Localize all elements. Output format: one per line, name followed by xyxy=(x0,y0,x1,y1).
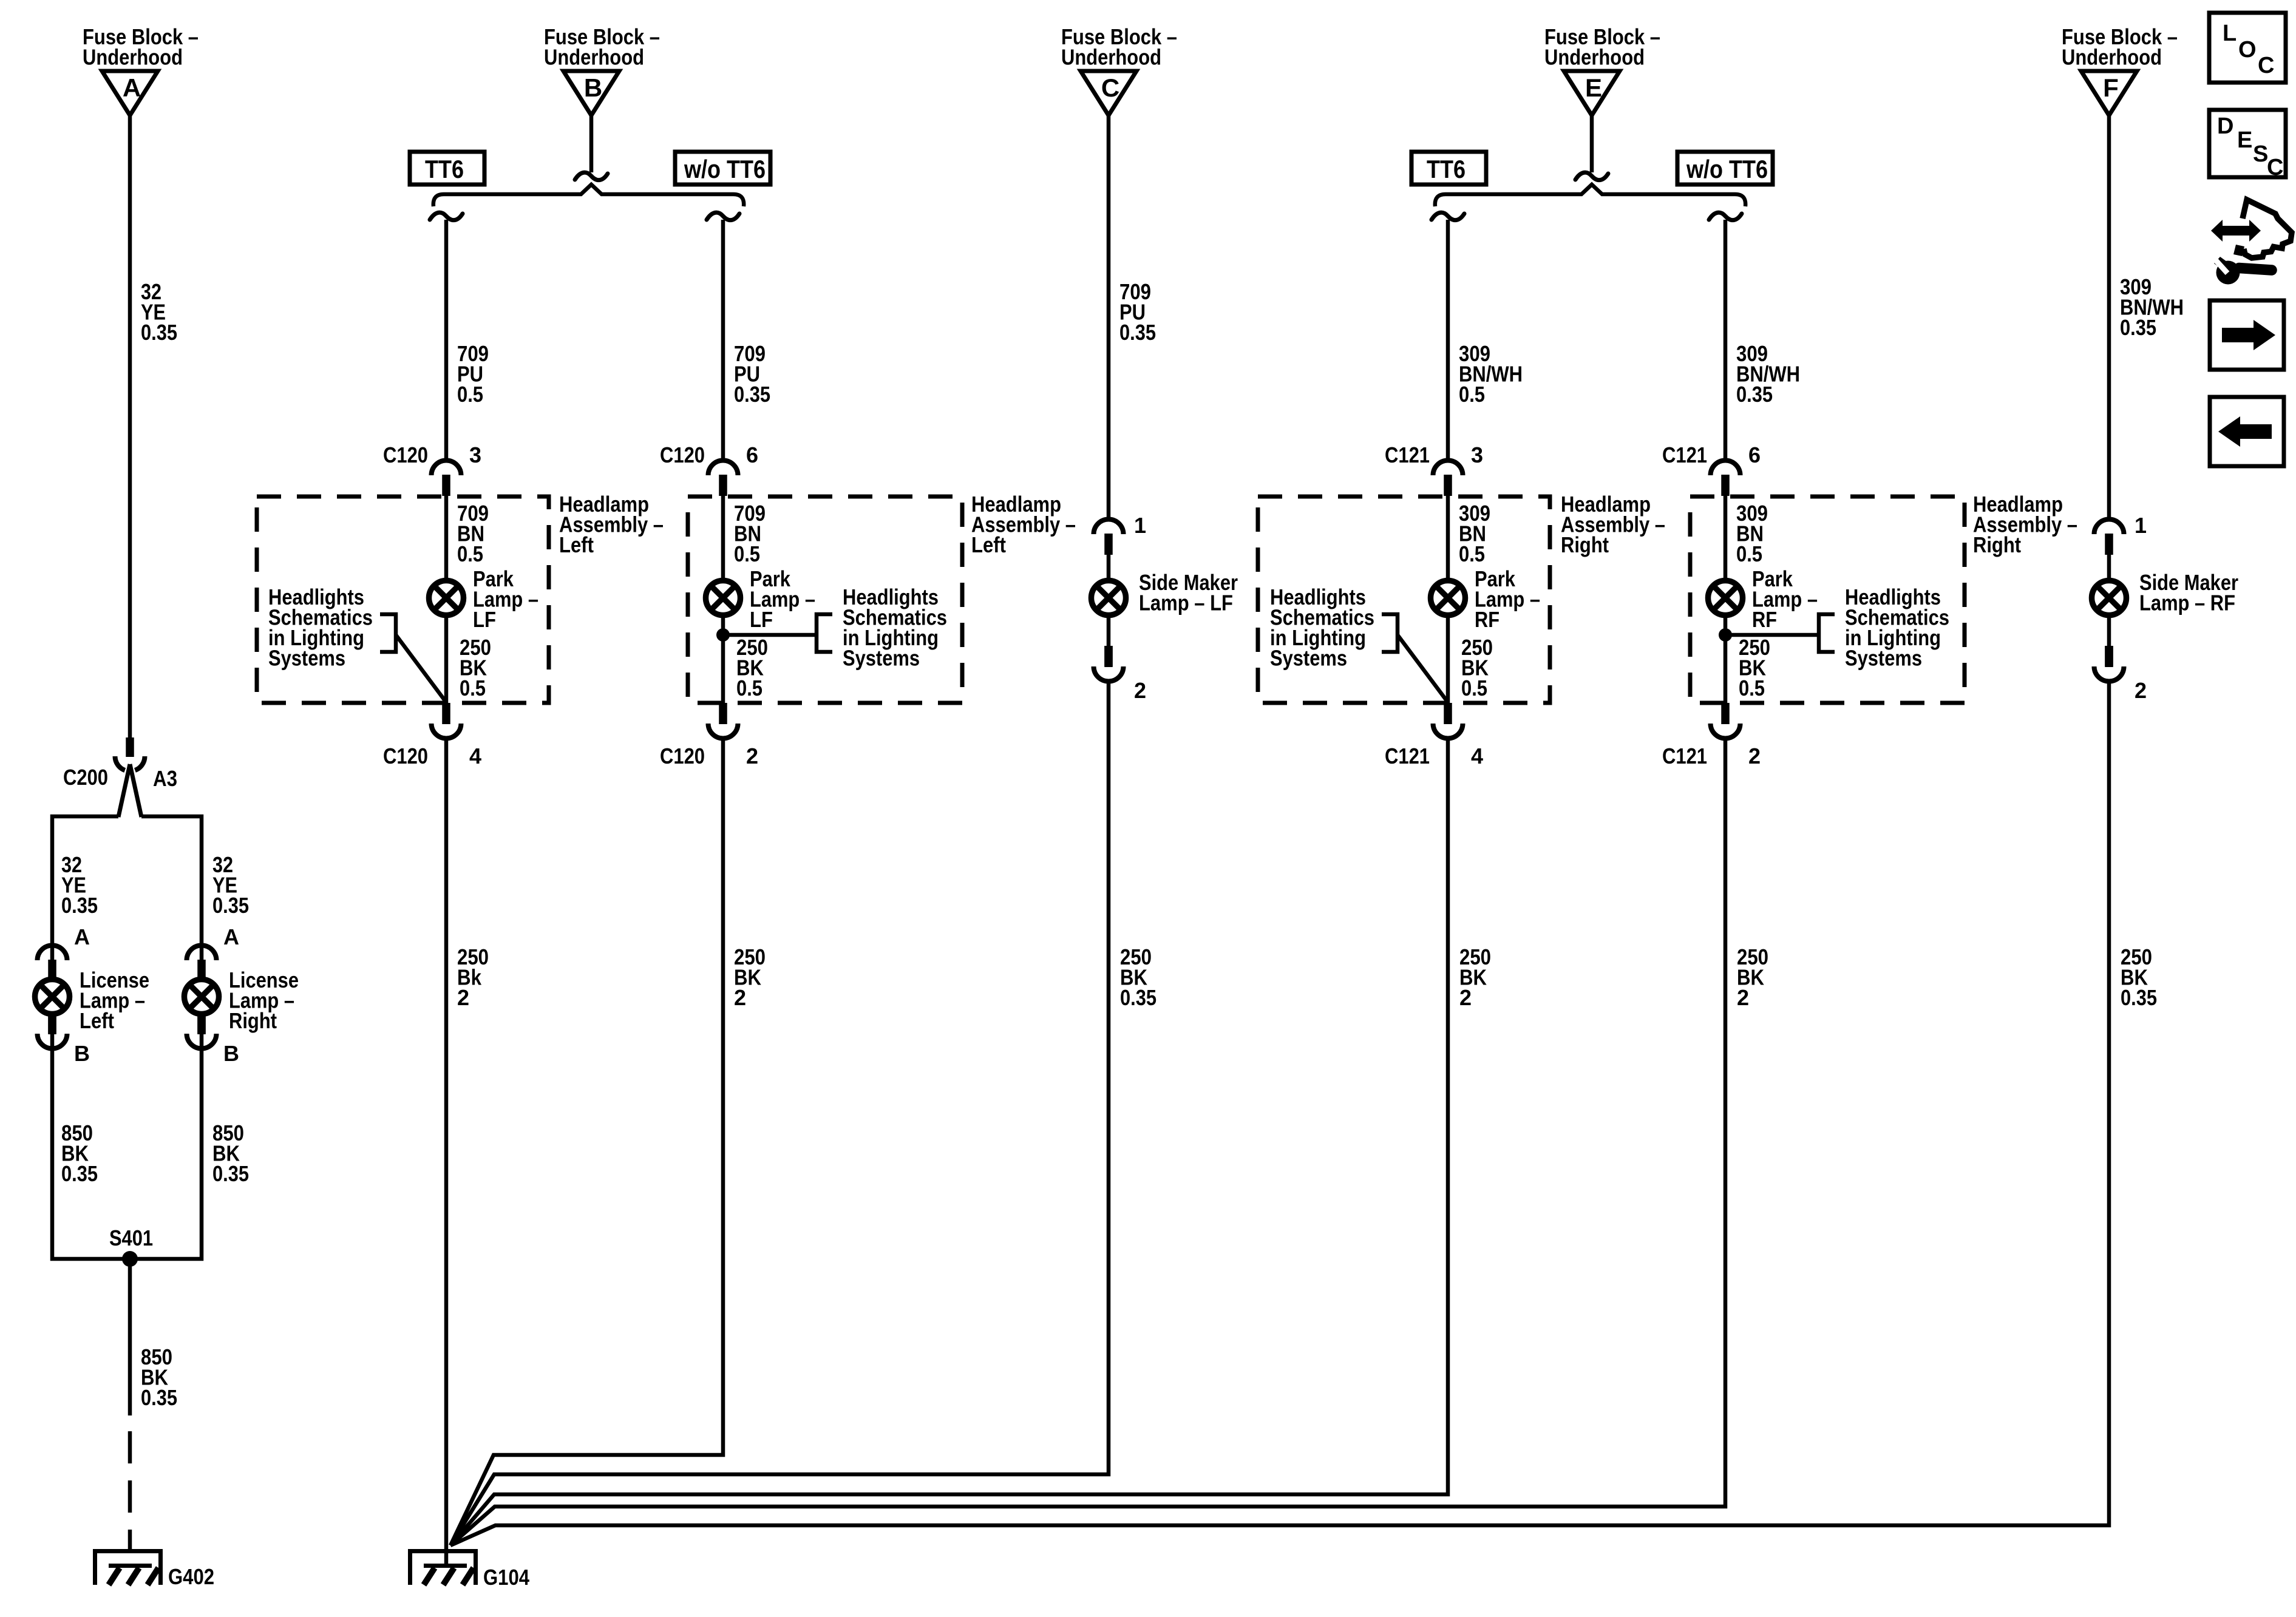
svg-text:3: 3 xyxy=(1471,442,1483,467)
svg-text:2: 2 xyxy=(1459,985,1472,1010)
svg-text:0.35: 0.35 xyxy=(1119,320,1156,345)
svg-text:LF: LF xyxy=(473,607,496,632)
svg-text:TT6: TT6 xyxy=(1427,155,1466,183)
svg-text:Right: Right xyxy=(229,1008,277,1033)
svg-text:0.5: 0.5 xyxy=(1739,676,1765,700)
svg-text:C: C xyxy=(1101,73,1119,102)
svg-text:0.35: 0.35 xyxy=(212,1161,249,1186)
svg-text:C: C xyxy=(2258,53,2274,78)
svg-text:0.35: 0.35 xyxy=(1120,985,1156,1010)
svg-text:D: D xyxy=(2217,114,2233,139)
svg-text:L: L xyxy=(2223,21,2237,46)
svg-text:0.5: 0.5 xyxy=(1736,541,1762,566)
svg-text:2: 2 xyxy=(734,985,746,1010)
svg-text:C: C xyxy=(2267,155,2283,180)
svg-text:Systems: Systems xyxy=(843,646,920,671)
svg-text:0.5: 0.5 xyxy=(457,541,483,566)
svg-text:Right: Right xyxy=(1973,532,2021,557)
svg-text:Underhood: Underhood xyxy=(544,45,644,70)
svg-text:0.35: 0.35 xyxy=(734,382,770,407)
svg-text:Systems: Systems xyxy=(1845,646,1922,671)
svg-text:E: E xyxy=(1585,73,1602,102)
svg-text:0.5: 0.5 xyxy=(1459,541,1485,566)
svg-text:w/o TT6: w/o TT6 xyxy=(684,155,766,183)
svg-text:B: B xyxy=(584,73,602,102)
svg-text:C121: C121 xyxy=(1385,744,1430,768)
svg-text:2: 2 xyxy=(1134,678,1146,703)
svg-text:0.35: 0.35 xyxy=(61,893,98,918)
svg-text:RF: RF xyxy=(1752,607,1777,632)
svg-text:Underhood: Underhood xyxy=(2062,45,2162,70)
svg-text:0.5: 0.5 xyxy=(736,676,763,700)
svg-text:Left: Left xyxy=(80,1008,114,1033)
svg-text:S401: S401 xyxy=(109,1225,153,1250)
svg-text:Underhood: Underhood xyxy=(83,45,183,70)
svg-text:TT6: TT6 xyxy=(425,155,464,183)
svg-text:Left: Left xyxy=(971,532,1006,557)
svg-text:0.5: 0.5 xyxy=(457,382,483,407)
svg-text:C120: C120 xyxy=(660,744,705,768)
svg-text:B: B xyxy=(74,1041,90,1066)
svg-text:2: 2 xyxy=(746,744,758,768)
svg-text:2: 2 xyxy=(457,985,469,1010)
svg-text:C120: C120 xyxy=(660,442,705,467)
svg-text:0.35: 0.35 xyxy=(212,893,249,918)
svg-text:0.5: 0.5 xyxy=(1459,382,1485,407)
svg-text:0.35: 0.35 xyxy=(141,320,177,345)
svg-text:C200: C200 xyxy=(63,765,108,790)
svg-text:C120: C120 xyxy=(383,744,428,768)
svg-text:0.5: 0.5 xyxy=(460,676,486,700)
svg-text:2: 2 xyxy=(1737,985,1749,1010)
svg-text:0.35: 0.35 xyxy=(61,1161,98,1186)
svg-text:Right: Right xyxy=(1561,532,1609,557)
svg-text:0.35: 0.35 xyxy=(1736,382,1773,407)
svg-text:1: 1 xyxy=(1134,513,1146,538)
svg-text:A: A xyxy=(223,924,239,949)
svg-text:Systems: Systems xyxy=(268,646,345,671)
svg-text:0.5: 0.5 xyxy=(1461,676,1487,700)
svg-text:S: S xyxy=(2253,141,2268,167)
svg-text:2: 2 xyxy=(2135,678,2147,703)
svg-text:RF: RF xyxy=(1475,607,1500,632)
svg-text:Lamp – RF: Lamp – RF xyxy=(2139,591,2235,615)
svg-text:0.35: 0.35 xyxy=(2121,985,2157,1010)
svg-text:0.5: 0.5 xyxy=(734,541,760,566)
svg-text:6: 6 xyxy=(1748,442,1761,467)
svg-text:E: E xyxy=(2237,127,2252,153)
svg-text:Lamp – LF: Lamp – LF xyxy=(1139,591,1233,615)
svg-text:A: A xyxy=(123,73,141,102)
svg-text:C121: C121 xyxy=(1385,442,1430,467)
svg-text:Underhood: Underhood xyxy=(1544,45,1645,70)
svg-text:C121: C121 xyxy=(1662,744,1707,768)
svg-text:O: O xyxy=(2238,37,2257,63)
svg-text:G104: G104 xyxy=(483,1565,529,1590)
svg-text:LF: LF xyxy=(750,607,773,632)
svg-text:Underhood: Underhood xyxy=(1061,45,1161,70)
svg-text:Left: Left xyxy=(559,532,594,557)
svg-text:4: 4 xyxy=(469,744,481,768)
svg-text:C121: C121 xyxy=(1662,442,1707,467)
svg-text:6: 6 xyxy=(746,442,758,467)
svg-text:1: 1 xyxy=(2135,513,2147,538)
svg-text:G402: G402 xyxy=(168,1564,214,1589)
svg-text:B: B xyxy=(223,1041,239,1066)
svg-text:A: A xyxy=(74,924,90,949)
svg-text:3: 3 xyxy=(469,442,481,467)
svg-text:4: 4 xyxy=(1471,744,1483,768)
svg-text:w/o TT6: w/o TT6 xyxy=(1686,155,1768,183)
svg-text:C120: C120 xyxy=(383,442,428,467)
svg-text:Systems: Systems xyxy=(1270,646,1347,671)
svg-text:0.35: 0.35 xyxy=(141,1385,177,1410)
svg-text:A3: A3 xyxy=(153,766,177,791)
svg-text:F: F xyxy=(2103,73,2119,102)
svg-text:2: 2 xyxy=(1748,744,1761,768)
svg-text:0.35: 0.35 xyxy=(2120,315,2156,340)
